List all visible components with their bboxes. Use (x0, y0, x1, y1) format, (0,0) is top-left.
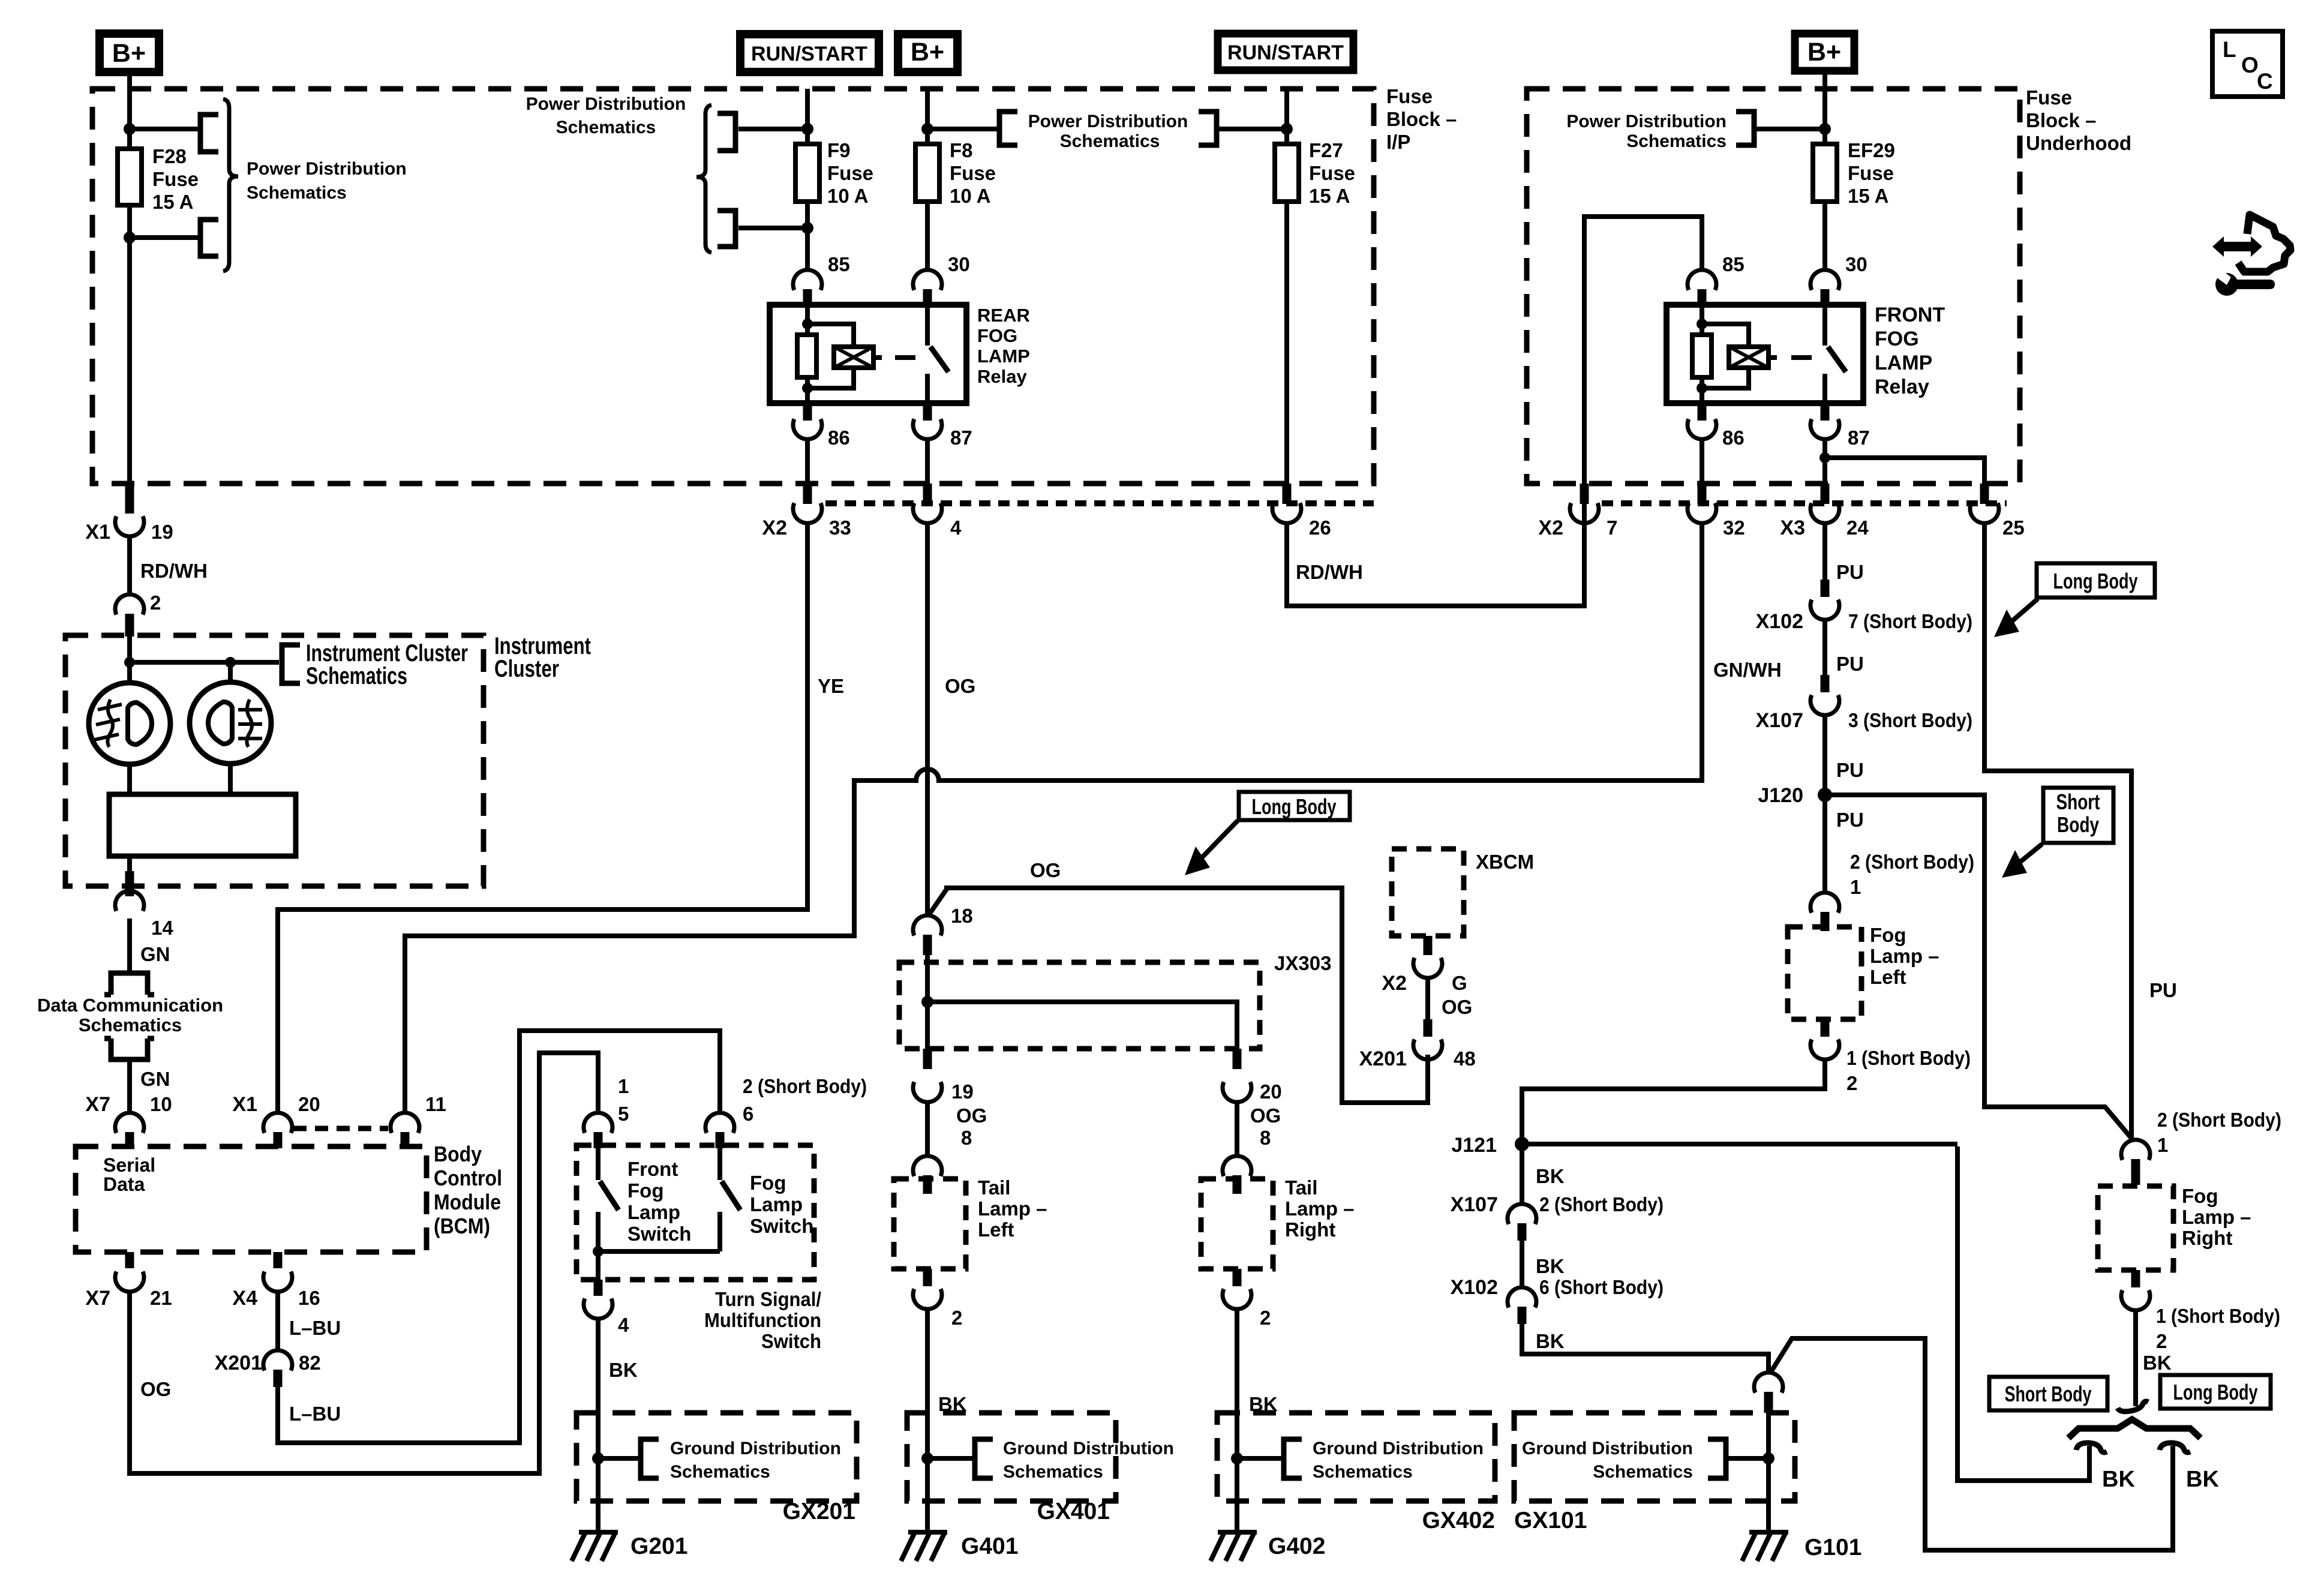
relay1 coil junction bottom (802, 383, 813, 394)
label 20 (tail right) (1260, 1080, 1282, 1103)
svg-text:Long Body: Long Body (2173, 1380, 2258, 1404)
svg-text:2 (Short Body): 2 (Short Body) (743, 1075, 867, 1097)
svg-text:BK: BK (2186, 1467, 2219, 1492)
connector cup cluster output (115, 891, 144, 911)
svg-text:2: 2 (951, 1307, 962, 1329)
pin X201-82 (274, 1370, 283, 1387)
label L-BU (lower) (289, 1403, 341, 1425)
label 30 (rear relay) (948, 253, 970, 275)
ground G201 (572, 1532, 618, 1561)
pin 8 left (923, 1175, 932, 1194)
label G101 (1804, 1535, 1861, 1560)
bracket GX201 (641, 1439, 659, 1478)
label Instrument Cluster (494, 633, 591, 682)
svg-text:6 (Short Body): 6 (Short Body) (1539, 1276, 1664, 1298)
svg-text:19: 19 (151, 521, 173, 543)
label 7 (Short Body) (1848, 610, 1972, 632)
wire tail right to GX402 (1235, 1308, 1239, 1458)
cluster internal wire top (127, 637, 132, 682)
label GN (lower) (140, 1068, 170, 1090)
connector cup X2-26 (1272, 503, 1301, 524)
svg-text:Long Body: Long Body (1252, 794, 1337, 819)
svg-text:2 (Short Body): 2 (Short Body) (1850, 851, 1974, 873)
svg-text:Control: Control (434, 1166, 502, 1190)
svg-text:87: 87 (950, 427, 972, 449)
pin XBCM out (1424, 936, 1433, 955)
label BK (J121-1) (1536, 1165, 1565, 1187)
svg-text:Lamp –: Lamp – (1285, 1197, 1355, 1220)
connector cup X2-7 (1570, 503, 1599, 524)
svg-text:Body: Body (434, 1142, 482, 1166)
cluster bus wire (130, 660, 279, 665)
Short Body callout box 2 (1989, 1377, 2107, 1410)
label 5 (switch pin) (618, 1103, 629, 1125)
pin X7-10 (125, 1132, 134, 1148)
fuse block - I/P dashed outline (92, 89, 1374, 484)
wire 87 branch to X3-25 (1825, 458, 1984, 487)
svg-text:Schematics: Schematics (556, 118, 656, 137)
label X1 (20) (232, 1093, 257, 1116)
connector cup relay2 pin 30 (1810, 270, 1839, 290)
connector strip X1 (BCM) (293, 1126, 388, 1131)
relay2 solenoid loop bottom (1702, 368, 1749, 388)
pin X1-20 (274, 1132, 283, 1148)
instrument cluster dashed box (65, 635, 484, 886)
label 19 (151, 521, 173, 543)
pin JX303-20 (1233, 1049, 1242, 1069)
pin X107-2 (1518, 1223, 1527, 1241)
label Fog Lamp Switch (750, 1172, 813, 1237)
svg-text:X4: X4 (232, 1287, 257, 1310)
bracket F27 side (1199, 112, 1217, 145)
label fuse EF29 (1848, 139, 1895, 207)
label 1 (fog left) (1850, 876, 1861, 898)
svg-text:Switch: Switch (627, 1223, 691, 1245)
wire X3-25 to fog lamp right (1984, 522, 2131, 1141)
bracket F9 bottom (717, 211, 735, 247)
power B+ terminal (left) (100, 34, 159, 72)
svg-text:10 A: 10 A (827, 185, 868, 207)
connector cup 8 left (913, 1156, 942, 1176)
pin X1-19 (125, 484, 134, 514)
relay2 actuator dash (1791, 355, 1812, 360)
label 2 (fog left out) (1846, 1072, 1857, 1094)
cluster junction left (124, 657, 135, 668)
wire J120 branch right (1825, 795, 2134, 1141)
svg-text:X1: X1 (85, 521, 110, 544)
label G (1452, 972, 1467, 994)
svg-text:Underhood: Underhood (2026, 132, 2131, 154)
label 87 (rear relay) (950, 427, 972, 449)
wire RUN/START through F27 to X2-26 (1284, 89, 1289, 484)
fuse block - Underhood dashed outline (1527, 89, 2020, 484)
svg-text:Short Body: Short Body (2005, 1382, 2092, 1406)
svg-text:X107: X107 (1451, 1193, 1498, 1216)
relay2 switch bottom contact (1822, 374, 1827, 403)
svg-text:Fuse: Fuse (1309, 162, 1355, 184)
connector cup X7-21 (115, 1272, 144, 1292)
svg-text:G402: G402 (1268, 1533, 1325, 1559)
connector cup X3-24 (1810, 503, 1839, 524)
label BK (J121-3) (1536, 1330, 1565, 1352)
pin relay1 87 (923, 403, 932, 421)
connector cup G101 (1754, 1373, 1783, 1393)
Long Body callout box 3 (2160, 1375, 2271, 1409)
svg-text:Fog: Fog (1870, 924, 1906, 946)
label Data Communication Schematics (37, 995, 223, 1035)
label 4 (950, 517, 962, 539)
pin 8 right (1233, 1175, 1242, 1194)
connector cup cluster feed (115, 595, 144, 615)
svg-text:REAR: REAR (977, 305, 1030, 326)
label X3 (1780, 517, 1805, 539)
svg-text:Module: Module (434, 1190, 501, 1214)
pin cluster feed (125, 614, 134, 637)
svg-text:Ground Distribution: Ground Distribution (1313, 1439, 1484, 1458)
pin relay2 87 (1821, 403, 1830, 421)
label 14 (151, 917, 173, 939)
label X2 (33) (762, 517, 787, 539)
svg-text:Right: Right (1285, 1218, 1335, 1241)
label BK (tail right) (1249, 1393, 1278, 1415)
svg-text:Fuse: Fuse (827, 162, 873, 184)
relay2 solenoid loop top (1702, 324, 1749, 347)
bracket F9 top (717, 113, 735, 151)
svg-text:GN/WH: GN/WH (1713, 659, 1782, 681)
connector cup X102-6 (1508, 1287, 1536, 1308)
junction J121 (1515, 1137, 1529, 1151)
label 21 (150, 1287, 172, 1309)
svg-text:18: 18 (951, 905, 973, 927)
label Instrument Cluster Schematics (306, 640, 468, 689)
connector cup 8 right (1223, 1156, 1251, 1176)
label X1 (85, 521, 110, 544)
wire GX201 junction to bracket (598, 1456, 641, 1461)
label Tail Lamp - Left (978, 1176, 1047, 1241)
svg-text:1: 1 (1850, 876, 1861, 898)
svg-text:Fuse: Fuse (1386, 85, 1433, 107)
svg-text:Block –: Block – (2026, 109, 2096, 131)
connector cup tail left out (913, 1289, 942, 1310)
fuse block - I/P label (1386, 85, 1457, 153)
pin junction 18 (923, 935, 932, 955)
label Power Distribution Schematics (F9) (526, 94, 686, 137)
svg-text:Schematics: Schematics (247, 183, 347, 203)
svg-text:Left: Left (1870, 966, 1906, 988)
label X4 (232, 1287, 257, 1310)
fuse F9 (795, 144, 819, 202)
connector cup switch 4 (584, 1299, 612, 1319)
JX303 internal bus (927, 1002, 1237, 1049)
svg-text:PU: PU (1836, 809, 1864, 831)
label 32 (1723, 517, 1745, 539)
svg-text:Fog: Fog (2182, 1185, 2218, 1207)
bracket F28 top (200, 115, 218, 152)
relay1 solenoid valve (834, 347, 873, 368)
svg-text:1: 1 (2157, 1134, 2168, 1156)
pin X7-21 (125, 1252, 134, 1268)
svg-text:87: 87 (1848, 427, 1870, 449)
pin X102-6 (1518, 1307, 1527, 1324)
svg-text:RUN/START: RUN/START (751, 43, 867, 65)
relay2 coil resistor (1692, 335, 1712, 377)
bracket GX101 (1708, 1439, 1726, 1478)
label 1 (Short Body) (fog left out) (1846, 1047, 1971, 1069)
wire to G401 (925, 1458, 930, 1532)
offpage symbol to Data Communication (104, 973, 154, 995)
label 86 (rear relay) (828, 427, 850, 449)
relay2 switch top contact (1822, 305, 1827, 346)
pin 11 (401, 1132, 410, 1148)
body control module dashed box (76, 1146, 427, 1252)
junction block JX303 dashed box (899, 962, 1260, 1049)
label 1 (switch pin) (618, 1075, 629, 1097)
svg-text:24: 24 (1846, 517, 1869, 539)
wire J120 to fog lamp left (1822, 795, 1827, 894)
turn signal/multifunction switch dashed box (577, 1145, 814, 1280)
junction below F9 (801, 222, 813, 234)
svg-text:11: 11 (425, 1093, 446, 1115)
connector cup tail right out (1223, 1289, 1251, 1310)
svg-text:X201: X201 (215, 1352, 262, 1374)
label Power Distribution Schematics (EF29) (1566, 112, 1727, 151)
pin relay1 85 (803, 289, 812, 307)
svg-text:15 A: 15 A (152, 191, 193, 213)
label PU (2) (1836, 653, 1864, 675)
wire GN/WH front 32 to BCM 11 (405, 522, 1702, 1114)
svg-text:PU: PU (1836, 653, 1864, 675)
label PU (4) (1836, 809, 1864, 831)
relay2 coil wire (1700, 305, 1704, 403)
ground distribution box GX402 (1217, 1413, 1495, 1501)
label Fog Lamp - Right (2182, 1185, 2251, 1249)
connector XBCM dashed box (1392, 849, 1464, 936)
svg-text:Relay: Relay (977, 366, 1027, 387)
pin switch 5 (594, 1132, 603, 1148)
svg-text:OG: OG (1030, 859, 1061, 881)
wire EF29 junction to bracket (1754, 127, 1825, 131)
wire GX402 junction to bracket (1237, 1456, 1284, 1461)
wire right lamp to module box (228, 763, 233, 794)
svg-text:GX402: GX402 (1422, 1508, 1495, 1533)
svg-text:Block –: Block – (1386, 108, 1457, 130)
wire relay1 87 to X2-4 (925, 438, 930, 487)
relay1 coil junction top (802, 319, 813, 329)
label Power Distribution Schematics (F28) (247, 159, 407, 203)
wire RUN/START to relay pin 85 (805, 89, 810, 271)
wire X102-6 to G101 (1522, 1324, 1768, 1374)
label Tail Lamp - Right (1285, 1176, 1355, 1241)
svg-text:C: C (2257, 69, 2273, 94)
label 24 (1846, 517, 1869, 539)
wire cluster to offpage (127, 918, 132, 973)
fuse F28 (118, 149, 142, 205)
svg-text:PU: PU (2149, 979, 2177, 1001)
fog lamp switch blade (722, 1181, 740, 1210)
label X7 (21) (85, 1287, 110, 1310)
connector cup relay1 87 (913, 419, 942, 440)
svg-text:PU: PU (1836, 759, 1864, 781)
junction J120 (1818, 788, 1832, 802)
ground G402 (1211, 1532, 1257, 1561)
label GX401 (1037, 1499, 1110, 1524)
wire to top bracket F28 (130, 127, 200, 131)
svg-text:10 A: 10 A (950, 185, 990, 207)
label 85 (front relay) (1722, 253, 1744, 275)
svg-text:Lamp –: Lamp – (978, 1197, 1047, 1220)
pin X107-3 (1821, 675, 1830, 692)
wire J121 down (1520, 1144, 1524, 1205)
pin X201-48 (1424, 1019, 1433, 1037)
svg-text:32: 32 (1723, 517, 1745, 539)
relay1 coil wire (805, 305, 810, 403)
svg-text:Fog: Fog (627, 1179, 663, 1202)
svg-text:19: 19 (951, 1080, 974, 1103)
label OG (tail right) (1250, 1104, 1281, 1127)
svg-text:F27: F27 (1309, 139, 1343, 161)
svg-text:Cluster: Cluster (494, 656, 559, 682)
connector cup switch 5 (584, 1113, 612, 1133)
wire relay2 86 to X2-32 (1700, 438, 1704, 487)
pin fog left out (1821, 1019, 1830, 1037)
wire X201-82 to switch pin 6 (278, 1031, 720, 1443)
wire X7-21 to switch pin 5 (130, 1053, 598, 1473)
service info icon (2212, 215, 2290, 296)
svg-text:RUN/START: RUN/START (1227, 41, 1344, 64)
label J121 (1451, 1134, 1497, 1157)
connector cup X107-2 (1508, 1204, 1536, 1224)
wire bracket to F27 junction (1217, 127, 1287, 131)
svg-text:Switch: Switch (761, 1330, 821, 1352)
svg-text:Serial: Serial (103, 1154, 155, 1176)
svg-text:LAMP: LAMP (977, 346, 1030, 367)
cluster module box (109, 794, 296, 856)
pin X3-25 (1980, 484, 1989, 504)
pin X2-26 (1283, 484, 1292, 504)
svg-text:RD/WH: RD/WH (1296, 561, 1363, 583)
pin fog left in (1821, 912, 1830, 931)
wire to bottom bracket F9 (738, 226, 807, 230)
label 1 (Short Body) (fog right out) (2156, 1305, 2280, 1327)
svg-text:O: O (2241, 53, 2259, 77)
label 20 (298, 1093, 320, 1115)
svg-text:Right: Right (2182, 1227, 2232, 1249)
GX101 junction (1762, 1452, 1774, 1464)
svg-text:Power Distribution: Power Distribution (247, 159, 407, 179)
svg-text:X7: X7 (85, 1093, 110, 1116)
svg-text:Ground Distribution: Ground Distribution (670, 1439, 841, 1458)
bracket GX402 (1284, 1439, 1302, 1478)
label OG (serial) (140, 1378, 171, 1400)
svg-text:1: 1 (618, 1075, 629, 1097)
svg-text:82: 82 (299, 1352, 321, 1374)
svg-text:20: 20 (298, 1093, 320, 1115)
label 2 (Short Body) (X107) (1539, 1193, 1664, 1215)
wire BK long body to G101 (1770, 1338, 2173, 1550)
label 8 (tail left) (961, 1127, 972, 1149)
brace F9 (696, 105, 711, 253)
switch common junction (593, 1246, 603, 1257)
ground G401 (901, 1532, 947, 1561)
label PU (1) (1836, 561, 1864, 583)
fog lamp switch contact upper (717, 1148, 722, 1180)
svg-text:BK: BK (1536, 1330, 1565, 1352)
svg-text:Schematics: Schematics (79, 1014, 182, 1035)
label 18 (951, 905, 973, 927)
label 6 (Short Body) (X102) (1539, 1276, 1664, 1298)
wire J121 to hook line (1522, 1142, 1957, 1146)
svg-text:2: 2 (1260, 1307, 1271, 1329)
label G402 (1268, 1533, 1325, 1559)
svg-text:Fuse: Fuse (2026, 86, 2072, 109)
svg-text:Relay: Relay (1875, 376, 1929, 398)
svg-text:OG: OG (1250, 1104, 1281, 1127)
pin JX303-19 (923, 1049, 932, 1069)
relay2 coil junction top (1697, 319, 1707, 329)
svg-text:15 A: 15 A (1309, 185, 1350, 207)
svg-text:1 (Short Body): 1 (Short Body) (2156, 1305, 2280, 1327)
svg-text:L–BU: L–BU (289, 1403, 341, 1425)
svg-text:16: 16 (298, 1287, 320, 1309)
wire relay2 87 junction (1822, 438, 1827, 487)
junction above F9 (801, 123, 813, 135)
connector cup X2-4 (913, 503, 942, 524)
label X107 (2) (1451, 1193, 1498, 1216)
wire X3-24 to X102-7 (1822, 522, 1827, 580)
label RD/WH (loop) (1296, 561, 1363, 583)
label 30 (front relay) (1845, 253, 1867, 275)
svg-text:Lamp: Lamp (627, 1201, 680, 1223)
label PU (long body) (2149, 979, 2177, 1001)
connector cup relay1 pin 30 (913, 270, 942, 290)
svg-text:Power Distribution: Power Distribution (1566, 112, 1727, 131)
connector cup relay1 pin 85 (793, 270, 822, 290)
pin X102-7 (1821, 580, 1830, 597)
svg-text:J121: J121 (1451, 1134, 1497, 1157)
label OG (column) (945, 675, 975, 697)
connector cup 19 (913, 1082, 942, 1103)
svg-text:Tail: Tail (978, 1176, 1010, 1199)
label BK (tail left) (938, 1393, 967, 1415)
label 25 (2002, 517, 2025, 539)
svg-text:LAMP: LAMP (1875, 352, 1932, 374)
connector cup pin 11 (391, 1113, 419, 1133)
svg-text:L: L (2223, 37, 2236, 62)
wire module to exit pin (127, 856, 132, 871)
svg-text:Fuse: Fuse (152, 168, 199, 190)
label X7 (10) (85, 1093, 110, 1116)
wire OG long-body branch (929, 888, 1428, 1103)
label GX101 (1514, 1508, 1587, 1533)
wire X102-7 to X107-3 (1822, 619, 1827, 675)
label GX402 (1422, 1508, 1495, 1533)
label 87 (front relay) (1848, 427, 1870, 449)
bracket GX401 (975, 1439, 993, 1478)
cluster junction right (225, 657, 236, 668)
svg-text:30: 30 (948, 253, 970, 275)
label G201 (630, 1533, 687, 1559)
svg-text:10: 10 (150, 1093, 172, 1115)
connector cup relay2 pin 85 (1688, 270, 1716, 290)
pin relay2 30 (1821, 289, 1830, 307)
pin switch 4 (594, 1280, 603, 1296)
svg-text:1 (Short Body): 1 (Short Body) (1846, 1047, 1971, 1069)
junction above F28 (124, 123, 136, 135)
svg-text:Schematics: Schematics (1060, 131, 1160, 151)
svg-text:BK: BK (2143, 1352, 2172, 1374)
wire fog left return to J121 (1522, 1058, 1825, 1144)
svg-text:33: 33 (829, 517, 851, 539)
